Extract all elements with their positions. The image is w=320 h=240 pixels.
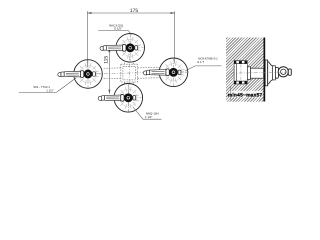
side view centerline — [231, 72, 291, 73]
body vertical centerline — [240, 65, 242, 81]
svg-text:G 1 T: G 1 T — [197, 60, 204, 64]
label top — [98, 23, 131, 34]
neck tube — [250, 68, 263, 78]
body top mounting band — [234, 60, 248, 64]
body cavity white — [234, 60, 248, 84]
svg-text:G 1/2": G 1/2" — [114, 27, 122, 31]
valve assembly bottom — [98, 84, 143, 113]
label left — [19, 78, 77, 93]
bell step — [272, 66, 275, 80]
extension line right — [174, 11, 176, 63]
extension line left — [86, 11, 88, 67]
main horizontal centerline — [66, 72, 188, 75]
svg-text:1 1/2": 1 1/2" — [145, 115, 152, 119]
valve assembly left — [58, 60, 103, 89]
lever end cap — [288, 69, 291, 75]
svg-text:1 1/2": 1 1/2" — [46, 89, 53, 93]
valve assembly right — [143, 58, 188, 87]
svg-text:min45~max57: min45~max57 — [228, 93, 263, 99]
dimension 115 line — [108, 48, 110, 94]
handle hub side — [278, 67, 288, 77]
main vertical centerline — [128, 33, 130, 112]
neck flange — [247, 67, 250, 80]
dimension text knockout — [229, 91, 262, 98]
body bottom mounting band — [234, 81, 248, 85]
escutcheon bell — [268, 61, 273, 84]
dimension extension tick — [230, 86, 232, 100]
dimension 175 arrows — [87, 12, 174, 14]
body side lines — [234, 64, 247, 81]
escutcheon flange plate — [265, 60, 268, 86]
svg-text:115: 115 — [104, 56, 110, 64]
label right — [185, 57, 221, 71]
svg-text:175: 175 — [130, 8, 139, 14]
wall face line — [264, 38, 266, 102]
valve assembly top — [100, 34, 145, 63]
collar ring — [275, 67, 278, 78]
label bottom — [133, 107, 162, 119]
dimension 175 line — [87, 11, 174, 67]
concealed body dashed outline — [103, 62, 160, 85]
dimension 115 arrows — [108, 48, 110, 94]
